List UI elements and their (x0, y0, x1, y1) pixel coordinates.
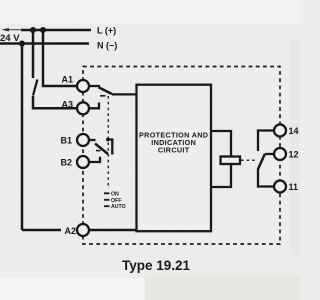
position marker dash B (96, 150, 101, 152)
contact blade (258, 154, 265, 169)
wire coil bottom to box (211, 164, 231, 187)
switch S1 blade (33, 80, 37, 96)
wire A3 stub (89, 103, 99, 109)
wire switch to A3 (33, 96, 77, 108)
wire N supply line (0, 42, 89, 45)
position indicator dashes ON OFF AUTO (104, 193, 110, 206)
terminal 11 (274, 181, 286, 193)
wire A2 to protection box (22, 229, 137, 232)
junction dot bracket (106, 138, 110, 142)
wire L to switch (32, 30, 35, 78)
relay coil K1 (221, 157, 241, 165)
mechanical link dashed (107, 96, 109, 189)
switch blade B1 (95, 144, 108, 155)
terminal A2 (77, 224, 89, 236)
wire A1 to blade (89, 85, 100, 87)
wire pole 11 (258, 169, 274, 187)
outer dashed enclosure box (83, 67, 280, 245)
wire B1 to blade (89, 139, 96, 141)
wire B2 stub (89, 157, 100, 162)
annotation arrow 24V (6, 29, 22, 31)
terminal A3 (77, 102, 89, 114)
terminal 14 (274, 125, 286, 137)
scan noise overlay (0, 0, 1, 1)
wire L to A1 (43, 30, 77, 86)
protection and indication circuit box U1 (137, 85, 212, 232)
wire L supply line (21, 29, 91, 32)
junction dot on N line (19, 41, 25, 47)
terminal B2 (77, 156, 89, 168)
position marker dash (100, 95, 106, 97)
switch blade A1 (99, 87, 113, 94)
junction dot on L line (30, 27, 36, 33)
terminal A1 (77, 80, 89, 92)
wire contact 12 (265, 153, 275, 155)
wire box to coil top (211, 131, 231, 157)
wire N to A2 (21, 44, 24, 231)
wire blade to protection box (112, 93, 137, 95)
junction dot on L line (40, 27, 46, 33)
fixed contact 14 (258, 131, 274, 152)
mechanical link coil to contact (241, 159, 256, 161)
fixed contact bracket B (107, 140, 112, 155)
terminal B1 (77, 134, 89, 146)
terminal 12 (274, 148, 286, 160)
